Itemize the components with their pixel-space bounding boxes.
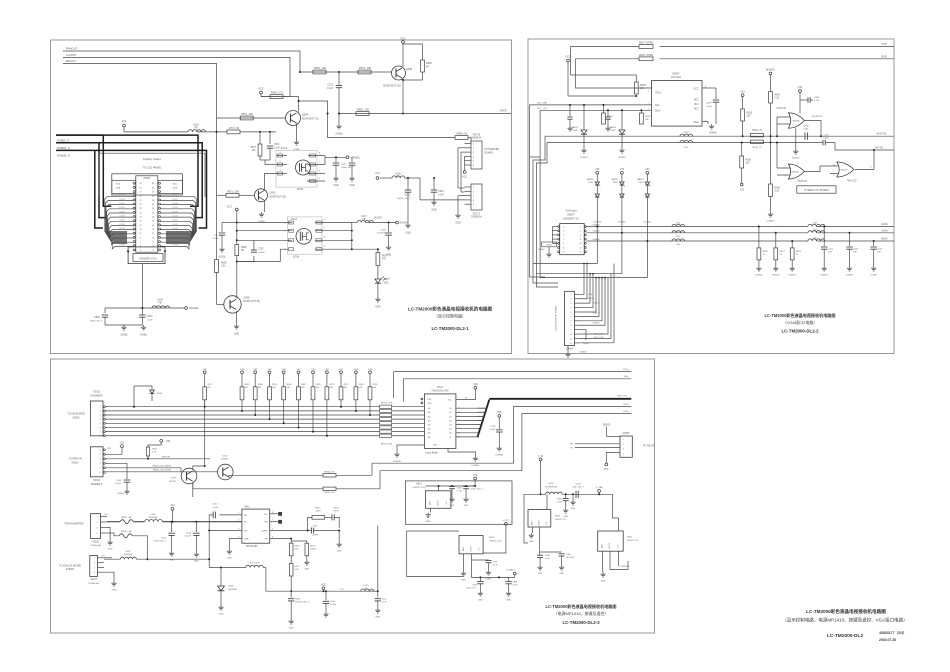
svg-text:LC-TM2000-DL2-1: LC-TM2000-DL2-1 bbox=[431, 326, 469, 331]
wire rail R580 bbox=[261, 96, 284, 98]
svg-text:R561: R561 bbox=[373, 384, 379, 386]
svg-text:GND: GND bbox=[464, 505, 469, 507]
svg-text:BGSOC: BGSOC bbox=[766, 69, 775, 72]
svg-text:SO5A: SO5A bbox=[293, 256, 300, 259]
wire sync1 bbox=[545, 135, 894, 137]
svg-text:74LVC32: 74LVC32 bbox=[776, 107, 786, 110]
svg-text:GND: GND bbox=[538, 573, 543, 575]
svg-text:XS613: XS613 bbox=[71, 461, 79, 464]
inductor L624 bbox=[546, 492, 563, 494]
svg-text:BC847(SOT-25): BC847(SOT-25) bbox=[383, 85, 400, 88]
svg-text:FB: FB bbox=[159, 303, 162, 305]
svg-text:GND: GND bbox=[601, 580, 606, 582]
svg-text:10uF/10V: 10uF/10V bbox=[566, 557, 575, 559]
capacitor LC607 bbox=[463, 486, 469, 488]
svg-text:BAV99: BAV99 bbox=[612, 178, 619, 181]
svg-text:RD: RD bbox=[570, 444, 574, 446]
ground bbox=[795, 128, 797, 149]
svg-text:DS006-6A: DS006-6A bbox=[471, 136, 482, 139]
ground bbox=[583, 148, 585, 150]
svg-text:XS616: XS616 bbox=[92, 541, 100, 543]
pins right bbox=[308, 155, 325, 157]
resistor R569 bbox=[312, 371, 315, 374]
sheet frame 3 power circuit bbox=[51, 359, 655, 633]
svg-text:LCD26: LCD26 bbox=[172, 236, 178, 238]
capacitor C808 bbox=[508, 577, 510, 581]
connector XS611 bbox=[90, 401, 103, 436]
gate N606B 74LVC32 bbox=[788, 164, 804, 179]
wire gate C out bbox=[855, 169, 874, 171]
svg-text:HK: HK bbox=[241, 250, 245, 252]
svg-text:N613: N613 bbox=[416, 483, 422, 485]
svg-text:N612: N612 bbox=[489, 537, 495, 539]
svg-text:XS609: XS609 bbox=[566, 348, 574, 350]
svg-text:2: 2 bbox=[570, 299, 571, 301]
capacitor C600 bbox=[575, 491, 577, 498]
inductor L603 bbox=[152, 306, 170, 308]
svg-text:RGB0[0_7]: RGB0[0_7] bbox=[57, 146, 70, 150]
inductor L602 bbox=[104, 558, 120, 560]
svg-text:0.1uF: 0.1uF bbox=[274, 147, 280, 149]
connector XS501 header bbox=[136, 176, 158, 252]
svg-text:NC2: NC2 bbox=[694, 104, 699, 106]
svg-text:5: 5 bbox=[570, 312, 571, 314]
transistor Q504 bbox=[286, 111, 301, 126]
svg-text:VOUT: VOUT bbox=[609, 542, 611, 548]
svg-text:BOARD: BOARD bbox=[485, 152, 494, 155]
wire Q506 emitter bbox=[402, 80, 404, 114]
wire comp up bbox=[308, 517, 312, 530]
resistor R582 bbox=[356, 112, 369, 116]
svg-text:DGND2: DGND2 bbox=[580, 157, 588, 159]
svg-text:GND: GND bbox=[559, 573, 564, 575]
keyboard wires bbox=[105, 406, 379, 408]
resistor R627 bbox=[639, 45, 653, 49]
svg-text:ADJ: ADJ bbox=[601, 544, 604, 548]
svg-text:C526: C526 bbox=[381, 230, 387, 232]
wire top rail bbox=[300, 71, 392, 73]
svg-text:3.3VSDV?: 3.3VSDV? bbox=[620, 566, 631, 568]
svg-text:IRRCVR: IRRCVR bbox=[162, 457, 170, 459]
svg-text:VCC: VCC bbox=[120, 443, 125, 445]
wire bus outputs bbox=[456, 407, 478, 409]
svg-text:10K: 10K bbox=[258, 387, 262, 389]
svg-text:10K: 10K bbox=[301, 387, 305, 389]
svg-text:Q702: Q702 bbox=[222, 455, 228, 457]
capacitor C611c bbox=[310, 528, 312, 534]
svg-text:GND: GND bbox=[234, 334, 239, 336]
ground bbox=[458, 195, 465, 197]
svg-text:L627: L627 bbox=[361, 215, 367, 218]
wire bbox=[764, 142, 824, 144]
wire N612 bbox=[407, 531, 464, 577]
svg-text:2.2K: 2.2K bbox=[775, 98, 780, 100]
svg-text:GND: GND bbox=[349, 185, 354, 187]
transistor Q503 bbox=[255, 189, 268, 202]
svg-text:R626: R626 bbox=[763, 251, 769, 253]
svg-text:EN: EN bbox=[264, 522, 267, 524]
svg-text:LCD03: LCD03 bbox=[119, 195, 125, 197]
svg-text:2: 2 bbox=[94, 563, 95, 565]
capacitor C6b bbox=[607, 110, 609, 116]
wire bbox=[284, 97, 299, 101]
svg-text:D608*: D608* bbox=[572, 130, 578, 132]
svg-text:10K: 10K bbox=[316, 387, 320, 389]
wire aux5v bbox=[366, 222, 396, 224]
capacitor C616b bbox=[849, 233, 851, 246]
wire clamp to bundle bbox=[596, 221, 598, 264]
svg-text:Q506: Q506 bbox=[406, 68, 413, 71]
svg-text:XS501: XS501 bbox=[143, 177, 151, 180]
svg-text:(GND): (GND) bbox=[140, 334, 147, 337]
wire Q504 base rail bbox=[217, 117, 286, 119]
label box left bbox=[112, 180, 136, 193]
svg-text:FB: FB bbox=[195, 127, 198, 129]
resistor R580c bbox=[235, 245, 239, 256]
svg-text:LC-TM2000-DL2: LC-TM2000-DL2 bbox=[827, 633, 864, 639]
svg-text:IN INVERTER: IN INVERTER bbox=[485, 149, 500, 151]
svg-text:C616: C616 bbox=[853, 249, 859, 251]
svg-text:BAIN: BAIN bbox=[882, 238, 888, 241]
svg-text:LC-TM2000彩色液晶电视接收机的电路图: LC-TM2000彩色液晶电视接收机的电路图 bbox=[408, 306, 493, 313]
ground left bbox=[397, 445, 424, 452]
svg-text:0.25uF: 0.25uF bbox=[258, 252, 265, 254]
svg-text:SDE: SDE bbox=[173, 188, 178, 190]
node VPANEL out bbox=[346, 156, 349, 159]
svg-text:LM1117-1.8: LM1117-1.8 bbox=[627, 540, 639, 542]
ground bbox=[143, 325, 145, 327]
svg-text:49NO: 49NO bbox=[588, 294, 593, 296]
node V33 ir bbox=[160, 440, 163, 443]
svg-text:N714: N714 bbox=[437, 386, 443, 389]
wire VGA_B bbox=[586, 240, 808, 242]
svg-text:NC: NC bbox=[264, 514, 268, 516]
wire hsync bbox=[825, 143, 894, 151]
power VCC bbox=[463, 171, 466, 174]
resistor R560 bbox=[355, 371, 358, 374]
node VPANEL bbox=[185, 307, 188, 310]
transistor Q703 bbox=[181, 468, 197, 484]
svg-text:GND: GND bbox=[112, 590, 117, 592]
svg-text:GND: GND bbox=[405, 232, 411, 235]
svg-text:1.5K: 1.5K bbox=[295, 569, 300, 571]
capacitor C565 bbox=[105, 462, 127, 464]
svg-text:R575_10K: R575_10K bbox=[359, 66, 372, 70]
svg-text:STB: STB bbox=[107, 448, 112, 450]
capacitor C616c bbox=[195, 522, 197, 532]
svg-text:VCC: VCC bbox=[694, 89, 699, 91]
svg-text:XS611: XS611 bbox=[93, 391, 101, 394]
wire IRRCVR bbox=[105, 458, 210, 460]
svg-text:R640: R640 bbox=[775, 188, 781, 190]
svg-text:FB: FB bbox=[363, 219, 366, 221]
svg-text:Vin: Vin bbox=[618, 545, 620, 548]
svg-text:Q503: Q503 bbox=[270, 192, 277, 195]
svg-text:LCD14: LCD14 bbox=[119, 240, 125, 242]
svg-text:DGND0: DGND0 bbox=[393, 461, 401, 463]
node V33b bbox=[740, 183, 743, 186]
svg-text:GND: GND bbox=[426, 521, 431, 523]
svg-text:R577: R577 bbox=[251, 147, 257, 149]
ic N610 LM1117-1.8 bbox=[528, 510, 551, 527]
svg-text:LCD18: LCD18 bbox=[172, 203, 178, 205]
wire 12V rail bbox=[107, 521, 120, 523]
svg-text:LCD06: LCD06 bbox=[119, 207, 125, 209]
svg-text:ADJ: ADJ bbox=[531, 521, 534, 525]
svg-text:GND: GND bbox=[571, 508, 576, 510]
connector XS714 bbox=[471, 141, 482, 169]
svg-text:N610: N610 bbox=[555, 515, 561, 517]
svg-text:Vin: Vin bbox=[446, 502, 448, 505]
wire Q703 out bbox=[193, 482, 323, 489]
svg-text:DQ203: DQ203 bbox=[603, 424, 611, 426]
svg-text:R567: R567 bbox=[301, 384, 307, 386]
wire KBn bbox=[403, 378, 631, 380]
wire sync2 bbox=[547, 142, 764, 144]
svg-text:DGND2: DGND2 bbox=[820, 275, 828, 277]
ground N714 bbox=[448, 448, 475, 456]
svg-text:N606A: N606A bbox=[793, 120, 800, 123]
svg-text:VCC: VCC bbox=[462, 176, 467, 179]
wire gate A output bbox=[804, 121, 821, 137]
svg-text:12P: 12P bbox=[828, 252, 832, 254]
svg-text:LCD27: LCD27 bbox=[172, 240, 178, 242]
resistor R679b bbox=[291, 541, 307, 543]
svg-text:GND: GND bbox=[289, 628, 294, 630]
svg-text:R679: R679 bbox=[382, 256, 388, 258]
ground bbox=[221, 247, 223, 249]
diode D602 BAV99 bbox=[596, 171, 599, 174]
resistor R620 bbox=[640, 110, 642, 113]
svg-text:BC847: BC847 bbox=[169, 481, 176, 483]
svg-text:C52?: C52? bbox=[341, 164, 347, 166]
svg-text:3: 3 bbox=[649, 186, 650, 188]
svg-text:C612: C612 bbox=[333, 507, 339, 509]
svg-text:XG17: XG17 bbox=[291, 218, 298, 221]
svg-text:LCD24: LCD24 bbox=[172, 228, 178, 230]
inductor L616 bbox=[672, 239, 685, 241]
svg-text:V_IN: V_IN bbox=[538, 456, 543, 458]
wire header to vpanel bbox=[141, 264, 143, 308]
svg-text:10K: 10K bbox=[251, 150, 256, 152]
svg-text:N606C: N606C bbox=[841, 170, 848, 172]
gate N606A 74LVC32 bbox=[788, 113, 804, 129]
svg-text:C605: C605 bbox=[457, 487, 463, 489]
svg-text:V33: V33 bbox=[166, 441, 171, 443]
svg-text:C616: C616 bbox=[186, 533, 192, 535]
capacitor C864 bbox=[479, 577, 481, 581]
diode D604 BAV99 bbox=[646, 171, 649, 174]
ground N611b bbox=[602, 551, 604, 572]
svg-text:C516: C516 bbox=[438, 190, 444, 193]
label box frame bbox=[112, 174, 183, 195]
wire panel led red bbox=[105, 471, 213, 473]
resistor R558 bbox=[323, 474, 336, 477]
connector XS617 bbox=[90, 555, 98, 576]
wire R571 to Q703 bbox=[204, 400, 206, 466]
svg-text:LED: LED bbox=[384, 282, 389, 284]
resistor R575 bbox=[358, 70, 371, 74]
resistor R571 bbox=[203, 371, 206, 374]
svg-text:GND: GND bbox=[375, 307, 380, 309]
svg-text:L626: L626 bbox=[193, 123, 199, 126]
connector XS609 bbox=[565, 291, 575, 345]
node V_IN bbox=[539, 458, 542, 461]
svg-text:VGA_G: VGA_G bbox=[593, 312, 601, 315]
wire header stubs left bbox=[553, 226, 558, 228]
svg-text:3.3nF: 3.3nF bbox=[333, 510, 339, 512]
svg-text:R634_75: R634_75 bbox=[752, 130, 762, 132]
svg-text:L624*: L624* bbox=[548, 483, 554, 485]
svg-text:C513: C513 bbox=[404, 194, 410, 197]
svg-text:R643_75: R643_75 bbox=[753, 147, 763, 149]
ground bbox=[567, 346, 569, 352]
svg-text:D609*: D609* bbox=[610, 130, 616, 132]
node V12b bbox=[171, 508, 174, 511]
svg-text:15uF_10V_T: 15uF_10V_T bbox=[466, 587, 478, 589]
comp network bbox=[270, 530, 311, 532]
ground bbox=[433, 192, 435, 200]
wire 5V rail bbox=[265, 568, 267, 592]
svg-text:C702: C702 bbox=[258, 249, 264, 251]
ground bbox=[351, 176, 353, 178]
svg-text:GND: GND bbox=[304, 569, 309, 571]
wire fan left bbox=[105, 196, 133, 231]
svg-text:R609*: R609* bbox=[640, 85, 646, 87]
svg-text:GND: GND bbox=[693, 122, 698, 124]
wire gate A inputs bbox=[777, 117, 790, 124]
fuse FR612 bbox=[107, 533, 119, 536]
pins OE bbox=[421, 398, 423, 400]
svg-text:HSYNC: HSYNC bbox=[875, 146, 884, 149]
ic N613 LM1117-3.3 bbox=[426, 491, 451, 509]
svg-text:LCDON: LCDON bbox=[66, 53, 76, 57]
svg-text:Vin: Vin bbox=[546, 522, 548, 525]
svg-text:GND: GND bbox=[333, 185, 338, 187]
resistor R636 bbox=[741, 143, 743, 157]
inductor L611 bbox=[808, 239, 825, 241]
inductor L616b bbox=[145, 520, 163, 522]
capacitor C602 bbox=[804, 133, 806, 140]
svg-text:9: 9 bbox=[570, 330, 571, 332]
ground bbox=[107, 528, 110, 541]
svg-text:DGND: DGND bbox=[870, 275, 877, 277]
connector bottom frame bbox=[128, 247, 165, 264]
svg-text:DGND: DGND bbox=[538, 249, 544, 251]
svg-text:+0.9?V: +0.9?V bbox=[502, 520, 510, 522]
svg-text:RP701_VIA: RP701_VIA bbox=[381, 402, 393, 405]
capacitor C526 bbox=[388, 223, 390, 233]
svg-text:R582_10K: R582_10K bbox=[357, 108, 370, 112]
svg-text:0.1uF: 0.1uF bbox=[493, 564, 499, 566]
svg-text:BC847: BC847 bbox=[222, 459, 229, 461]
svg-text:AVSYNC: AVSYNC bbox=[876, 132, 886, 135]
svg-text:LED0: LED0 bbox=[623, 411, 629, 413]
svg-text:C510: C510 bbox=[147, 316, 153, 318]
nc en pads bbox=[279, 512, 282, 515]
svg-text:Q703: Q703 bbox=[171, 478, 177, 480]
ground Q508 bbox=[236, 311, 238, 324]
svg-text:DGND: DGND bbox=[583, 343, 589, 345]
svg-text:GND: GND bbox=[169, 560, 174, 562]
svg-text:GND: GND bbox=[375, 617, 380, 619]
connector XS717 bbox=[471, 184, 482, 210]
wire gate B out bbox=[804, 166, 838, 172]
svg-text:C571: C571 bbox=[274, 144, 280, 146]
capacitor C612b bbox=[873, 241, 875, 246]
svg-text:R635: R635 bbox=[747, 113, 753, 115]
capacitor C709 bbox=[498, 415, 501, 418]
ground comp bbox=[338, 530, 340, 532]
ground N612 bbox=[463, 554, 465, 571]
svg-text:12P: 12P bbox=[877, 252, 881, 254]
wire bundle horizontals bbox=[533, 263, 597, 265]
svg-text:LCD13: LCD13 bbox=[119, 236, 125, 238]
svg-text:DGND2: DGND2 bbox=[618, 221, 626, 223]
svg-text:C709: C709 bbox=[493, 561, 499, 563]
wire RXD bbox=[660, 58, 895, 60]
svg-text:C600: C600 bbox=[576, 483, 582, 485]
fb network bbox=[270, 538, 292, 540]
svg-text:0.1nF: 0.1nF bbox=[213, 238, 219, 240]
svg-text:GAIN: GAIN bbox=[881, 229, 887, 232]
svg-text:R580_4.7K: R580_4.7K bbox=[271, 92, 284, 95]
svg-text:0.1uF: 0.1uF bbox=[327, 88, 333, 90]
svg-text:DGND1: DGND1 bbox=[772, 275, 780, 277]
svg-text:V33: V33 bbox=[798, 86, 803, 89]
wire emitters bbox=[192, 482, 194, 497]
svg-text:0.1uF: 0.1uF bbox=[382, 602, 388, 604]
capacitor C516 bbox=[433, 178, 435, 190]
resistor R773 bbox=[227, 130, 240, 134]
wire VGA_G bbox=[586, 232, 808, 234]
svg-text:D602: D602 bbox=[588, 182, 594, 184]
capacitor C861 bbox=[565, 494, 567, 498]
svg-text:XS617: XS617 bbox=[90, 579, 98, 581]
svg-text:V33: V33 bbox=[473, 475, 478, 477]
wire bus loop 3 bbox=[56, 150, 207, 228]
resistor R574 bbox=[268, 371, 271, 374]
wire CTSn bbox=[394, 371, 632, 373]
bus RXD-TXD thick bbox=[489, 398, 631, 400]
svg-text:49NO2: 49NO2 bbox=[588, 298, 594, 300]
diode D608b bbox=[220, 568, 222, 587]
svg-text:XG1A: XG1A bbox=[281, 147, 288, 150]
svg-text:ADJ: ADJ bbox=[462, 547, 465, 551]
svg-text:V33: V33 bbox=[740, 90, 745, 93]
ic N605 24LC21A bbox=[652, 81, 703, 127]
mosfet XG1A bbox=[276, 150, 317, 187]
svg-text:R558_470: R558_470 bbox=[324, 471, 335, 473]
transistor Q702 bbox=[218, 464, 234, 480]
svg-text:R671: R671 bbox=[295, 566, 301, 568]
ground MP1410 bbox=[229, 539, 242, 549]
power VCC2 bbox=[235, 208, 238, 211]
capacitor C613 bbox=[377, 591, 379, 597]
wire to XS714 bbox=[299, 101, 456, 138]
svg-text:GND: GND bbox=[194, 561, 199, 563]
svg-text:0.22uF: 0.22uF bbox=[185, 536, 192, 538]
svg-text:V33: V33 bbox=[645, 169, 650, 171]
capacitor C709b bbox=[471, 554, 473, 560]
resistor R580b bbox=[270, 95, 283, 99]
svg-text:22uF_16V_T: 22uF_16V_T bbox=[572, 487, 584, 489]
wire bbox=[458, 147, 465, 149]
resistor R635 bbox=[741, 94, 744, 97]
svg-text:R670: R670 bbox=[295, 546, 301, 548]
wire bbox=[239, 194, 255, 196]
svg-text:NC3: NC3 bbox=[694, 109, 699, 111]
